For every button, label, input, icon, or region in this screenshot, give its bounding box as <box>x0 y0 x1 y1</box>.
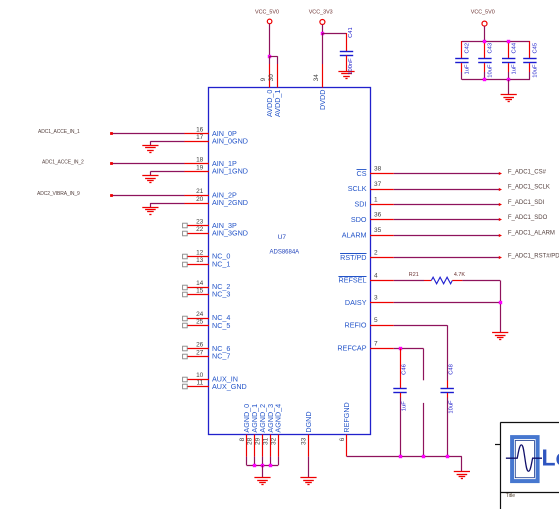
svg-text:32: 32 <box>270 437 277 445</box>
svg-text:22: 22 <box>196 226 204 233</box>
svg-text:36: 36 <box>374 212 382 219</box>
svg-text:9: 9 <box>260 77 267 81</box>
svg-text:10uF: 10uF <box>449 400 455 414</box>
svg-text:21: 21 <box>196 188 204 195</box>
svg-text:ADS8684A: ADS8684A <box>270 249 300 255</box>
svg-text:C44: C44 <box>511 42 517 53</box>
svg-text:F_ADC1_SDO: F_ADC1_SDO <box>508 215 548 221</box>
svg-text:2: 2 <box>374 250 378 257</box>
svg-text:16: 16 <box>196 127 204 134</box>
svg-text:31: 31 <box>263 437 270 445</box>
svg-text:1uF: 1uF <box>511 64 517 74</box>
svg-text:30: 30 <box>268 74 275 82</box>
svg-text:29: 29 <box>255 437 262 445</box>
svg-text:AIN_3GND: AIN_3GND <box>212 229 248 238</box>
svg-text:6: 6 <box>339 437 346 441</box>
svg-text:VCC_5V0: VCC_5V0 <box>255 9 279 15</box>
svg-text:10uF: 10uF <box>533 64 539 78</box>
svg-text:F_ADC1_CS#: F_ADC1_CS# <box>508 169 547 175</box>
svg-text:34: 34 <box>313 74 320 82</box>
svg-text:AUX_GND: AUX_GND <box>212 382 247 391</box>
svg-text:10: 10 <box>196 372 204 379</box>
svg-text:14: 14 <box>196 280 204 287</box>
svg-text:VCC_5V0: VCC_5V0 <box>471 10 495 16</box>
svg-text:REFSEL: REFSEL <box>339 276 367 285</box>
svg-text:C43: C43 <box>488 43 494 54</box>
svg-text:1: 1 <box>374 196 378 203</box>
svg-text:8: 8 <box>239 437 246 441</box>
svg-text:F_ADC1_SCLK: F_ADC1_SCLK <box>508 185 550 191</box>
svg-text:100nF: 100nF <box>348 58 354 75</box>
svg-text:SCLK: SCLK <box>348 184 367 193</box>
svg-text:26: 26 <box>196 342 204 349</box>
svg-text:19: 19 <box>196 164 204 171</box>
svg-text:38: 38 <box>374 166 382 173</box>
svg-text:1uF: 1uF <box>402 401 408 411</box>
svg-text:11: 11 <box>197 380 204 387</box>
svg-text:28: 28 <box>247 437 254 445</box>
svg-text:AIN_1GND: AIN_1GND <box>212 167 248 176</box>
svg-text:NC_1: NC_1 <box>212 259 230 268</box>
svg-text:REFCAP: REFCAP <box>337 344 366 353</box>
svg-text:NC_7: NC_7 <box>212 352 230 361</box>
svg-text:F_ADC1_ALARM: F_ADC1_ALARM <box>508 231 555 237</box>
svg-text:F_ADC1_SDI: F_ADC1_SDI <box>508 200 545 206</box>
svg-text:NC_5: NC_5 <box>212 321 230 330</box>
svg-text:33: 33 <box>301 437 308 445</box>
svg-text:5: 5 <box>374 317 378 324</box>
svg-text:4.7K: 4.7K <box>454 272 465 278</box>
svg-text:15: 15 <box>196 287 204 294</box>
svg-text:VCC_3V3: VCC_3V3 <box>309 9 333 15</box>
svg-text:CS: CS <box>357 169 367 178</box>
svg-text:35: 35 <box>374 227 382 234</box>
svg-text:17: 17 <box>196 134 204 141</box>
svg-text:AGND_4: AGND_4 <box>274 404 283 433</box>
svg-text:37: 37 <box>374 181 382 188</box>
svg-text:AIN_2GND: AIN_2GND <box>212 198 248 207</box>
svg-text:Title: Title <box>506 493 515 499</box>
svg-text:NC_3: NC_3 <box>212 290 230 299</box>
svg-text:C41: C41 <box>348 27 354 38</box>
svg-text:13: 13 <box>196 257 204 264</box>
svg-text:DGND: DGND <box>304 411 313 432</box>
svg-text:12: 12 <box>196 249 204 256</box>
svg-text:7: 7 <box>374 340 378 347</box>
svg-text:U7: U7 <box>278 234 287 241</box>
svg-text:RST/PD: RST/PD <box>340 253 366 262</box>
svg-text:REFIO: REFIO <box>345 320 367 329</box>
svg-text:4: 4 <box>374 272 378 279</box>
svg-text:SDO: SDO <box>351 215 367 224</box>
svg-text:C46: C46 <box>402 364 408 375</box>
svg-text:24: 24 <box>196 311 204 318</box>
svg-text:C48: C48 <box>449 364 455 375</box>
svg-text:ALARM: ALARM <box>342 230 367 239</box>
svg-text:27: 27 <box>196 349 204 356</box>
svg-text:C45: C45 <box>533 43 539 54</box>
svg-text:20: 20 <box>196 196 204 203</box>
svg-text:1uF: 1uF <box>465 64 471 74</box>
svg-text:25: 25 <box>196 319 204 326</box>
svg-text:3: 3 <box>374 295 378 302</box>
svg-text:DVDD: DVDD <box>318 90 327 110</box>
svg-text:AVDD_1: AVDD_1 <box>273 90 282 117</box>
svg-text:18: 18 <box>196 157 204 164</box>
svg-text:ADC1_ACCE_IN_1: ADC1_ACCE_IN_1 <box>38 129 80 135</box>
svg-text:SDI: SDI <box>355 200 367 209</box>
svg-text:ADC2_VIBRA_IN_9: ADC2_VIBRA_IN_9 <box>37 191 80 197</box>
svg-text:AIN_0GND: AIN_0GND <box>212 136 248 145</box>
svg-text:C42: C42 <box>465 43 471 54</box>
svg-text:REFGND: REFGND <box>342 402 351 432</box>
svg-text:23: 23 <box>196 219 204 226</box>
svg-text:Log: Log <box>542 445 559 471</box>
svg-text:DAISY: DAISY <box>345 298 367 307</box>
svg-text:R21: R21 <box>409 272 419 278</box>
svg-text:F_ADC1_RST#/PD: F_ADC1_RST#/PD <box>508 253 559 259</box>
svg-text:ADC1_ACCE_IN_2: ADC1_ACCE_IN_2 <box>42 159 84 165</box>
svg-text:10uF: 10uF <box>488 64 494 78</box>
